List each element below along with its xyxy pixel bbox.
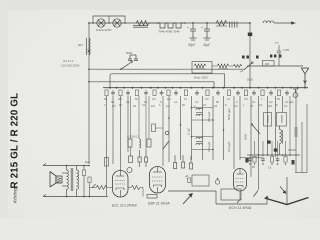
- component row mid bottom: [174, 155, 193, 169]
- svg-text:5000 µµF: 5000 µµF: [227, 108, 231, 120]
- bus junction dots: [109, 87, 306, 89]
- dipole V symbol: [265, 198, 309, 205]
- resistor R10: [131, 186, 140, 190]
- wire to choke: [149, 22, 158, 24]
- svg-text:0,3: 0,3: [234, 104, 238, 108]
- frame box AF coupling: [192, 175, 209, 186]
- main distribution bus: [103, 87, 308, 89]
- svg-text:0,1: 0,1: [284, 104, 288, 108]
- svg-text:0,1µF: 0,1µF: [187, 128, 191, 135]
- capacitor C14 FT 1725: [277, 45, 281, 66]
- diode D1 arrow: [280, 187, 286, 194]
- coil former box 2: [277, 113, 287, 127]
- wire output arrow: [274, 22, 295, 24]
- switch S4: [251, 124, 260, 134]
- svg-text:0,5: 0,5: [112, 104, 116, 108]
- coil marks inside formers: [268, 115, 283, 123]
- node dots electrode row: [250, 154, 291, 156]
- svg-text:6µF: 6µF: [85, 160, 90, 164]
- speaker LS: [50, 172, 62, 188]
- capacitor C7: [274, 149, 278, 152]
- resistor R5: [233, 65, 242, 68]
- capacitor C4 block: [248, 33, 252, 37]
- node filter cap 2: [206, 22, 208, 24]
- svg-text:0,1: 0,1: [214, 104, 218, 108]
- svg-text:0,3: 0,3: [205, 97, 209, 101]
- lamp La1: [97, 19, 105, 27]
- wire lamp middle tap: [108, 16, 110, 23]
- node B+ branch: [249, 22, 251, 24]
- node lamp taps: [88, 22, 126, 24]
- capacitor C2 electrolytic: [190, 23, 197, 40]
- svg-text:32µF: 32µF: [188, 43, 195, 47]
- svg-text:5000: 5000: [126, 51, 133, 55]
- svg-text:+: +: [187, 26, 189, 30]
- tube V3: [234, 169, 247, 192]
- wire lamp bypass loop: [93, 16, 125, 23]
- switch S3 wave band: [163, 131, 169, 149]
- wire branch down: [249, 23, 251, 88]
- svg-text:0,2: 0,2: [166, 104, 170, 108]
- svg-text:0,5: 0,5: [244, 97, 248, 101]
- svg-text:0,1: 0,1: [268, 166, 272, 170]
- label bus extra values: [104, 103, 288, 108]
- hanging resistor bank under bus: [105, 90, 289, 96]
- svg-text:F.T: F.T: [275, 41, 279, 45]
- small circle node: [127, 167, 132, 172]
- resistor R1: [136, 21, 149, 26]
- svg-text:µF: µF: [185, 174, 189, 178]
- labels under bank: [104, 97, 289, 104]
- svg-text:0,5: 0,5: [152, 97, 156, 101]
- wire tube V3 cathode lead: [239, 191, 241, 200]
- wire bottom right with arrow: [216, 197, 267, 204]
- node mains junctions: [88, 68, 90, 82]
- headphone jack J1: [293, 89, 298, 97]
- wire AVC line right: [247, 65, 303, 67]
- lamp La2: [113, 19, 121, 27]
- svg-text:0,3 50 0,1: 0,3 50 0,1: [127, 135, 140, 139]
- svg-text:7946 4096 7946: 7946 4096 7946: [158, 30, 180, 34]
- svg-text:2M: 2M: [118, 97, 122, 101]
- capacitor C6: [267, 141, 271, 144]
- wire speaker top line: [43, 166, 89, 197]
- IF transformer T2 coils: [192, 137, 214, 150]
- wire mixer electrode row: [247, 154, 300, 156]
- capacitor C1 series block: [133, 26, 148, 28]
- wire heater line 3: [89, 82, 214, 88]
- svg-text:1µF: 1µF: [289, 100, 294, 104]
- IF transformer T1 coils: [192, 108, 214, 121]
- svg-text:ECL 113 2R3W: ECL 113 2R3W: [112, 204, 137, 208]
- svg-text:Körting: Körting: [13, 187, 19, 203]
- capacitor C5: [128, 55, 138, 61]
- transformer T3 output: [62, 168, 79, 191]
- capacitor C12 blob: [292, 160, 295, 165]
- wire right mid horiz: [240, 157, 262, 159]
- svg-text:0,1: 0,1: [227, 97, 231, 101]
- svg-text:0,2: 0,2: [269, 100, 273, 104]
- node dots under electrode caps: [249, 163, 286, 164]
- svg-text:220 µµF: 220 µµF: [207, 111, 211, 122]
- capacitor row under electrode line: [248, 157, 287, 163]
- svg-text:EBF 11 5H3A: EBF 11 5H3A: [148, 202, 170, 206]
- trimmer row: [242, 55, 281, 59]
- wire heater line 2: [110, 74, 225, 88]
- svg-text:+: +: [201, 26, 203, 30]
- capacitor C8: [82, 170, 85, 176]
- coil L2: [263, 21, 274, 23]
- wire right mid horiz 2: [288, 149, 296, 151]
- svg-text:0,1: 0,1: [174, 100, 178, 104]
- component row above V2: [129, 150, 148, 167]
- svg-text:0,1: 0,1: [195, 100, 199, 104]
- resistor R8: [88, 177, 91, 183]
- svg-text:404: 404: [78, 43, 83, 47]
- switch arrow tuning: [183, 194, 192, 204]
- wire heater line 1: [89, 68, 244, 70]
- long drop wires: [107, 90, 297, 196]
- switch S2: [244, 62, 253, 70]
- capacitor C10: [188, 178, 191, 182]
- svg-text:0,1: 0,1: [259, 103, 263, 107]
- svg-text:1M: 1M: [151, 104, 155, 108]
- capacitor C11 blob: [245, 158, 248, 163]
- wire cluster drops: [131, 96, 150, 156]
- frame box around cathode: [221, 189, 241, 200]
- switch S6: [254, 191, 259, 197]
- title Körting R215GL/R220GL (vertical): [10, 93, 21, 203]
- switch S5: [92, 184, 96, 188]
- node filter cap 1: [192, 22, 194, 24]
- potentiometer P2: [215, 180, 219, 184]
- resistor R7 hatched: [294, 128, 297, 136]
- wire speaker bottom line: [43, 196, 108, 198]
- svg-text:110 125 220V: 110 125 220V: [61, 64, 79, 68]
- wire left feed vertical: [88, 23, 90, 164]
- tube V2: [150, 167, 166, 194]
- svg-text:Regl. 5020: Regl. 5020: [194, 76, 208, 80]
- antenna A1: [301, 68, 308, 88]
- coil L4 oscillator: [280, 126, 283, 155]
- svg-text:Ch 17-1: Ch 17-1: [63, 59, 74, 63]
- capacitor C3 electrolytic: [204, 23, 211, 40]
- svg-text:1725: 1725: [283, 48, 289, 52]
- svg-text:100: 100: [265, 62, 270, 66]
- svg-text:220 µµF: 220 µµF: [207, 141, 211, 152]
- tube V1 output ECL: [113, 171, 129, 198]
- svg-text:2000: 2000: [244, 133, 248, 140]
- svg-text:100 µµF: 100 µµF: [227, 141, 231, 152]
- wire right edge verticals: [295, 104, 307, 173]
- wire main B+ line: [89, 22, 250, 24]
- wire V antenna lead: [286, 177, 288, 204]
- node speaker line ends: [43, 164, 46, 197]
- grid cluster components: [128, 139, 151, 148]
- capacitor C9 under V2: [147, 195, 157, 199]
- svg-text:32µF: 32µF: [203, 43, 210, 47]
- wire heater links: [212, 65, 217, 67]
- choke L1 (square teeth): [158, 23, 185, 28]
- potentiometer P1 hatched block: [230, 22, 238, 28]
- coil L3 mains dropper (vertical): [86, 38, 90, 55]
- svg-text:5000: 5000: [247, 78, 253, 82]
- svg-text:0,1: 0,1: [252, 100, 256, 104]
- node x mark on mains wire: [88, 50, 91, 53]
- svg-text:µ4: µ4: [240, 69, 244, 73]
- svg-text:R 215 GL / R 220 GL: R 215 GL / R 220 GL: [10, 93, 21, 189]
- wire short drops to electrode row: [255, 96, 291, 155]
- coil former box 1: [264, 113, 272, 127]
- node junctions speaker: [66, 165, 91, 198]
- svg-text:0,22A 220V: 0,22A 220V: [96, 28, 112, 32]
- resistor R2: [216, 21, 227, 26]
- switch S1 mains selector: [121, 61, 133, 69]
- svg-text:0,1: 0,1: [142, 103, 146, 107]
- resistor R11 on feed: [105, 158, 109, 167]
- node dots mid verticals: [168, 107, 224, 151]
- resistor R3 in frame: [192, 62, 212, 74]
- resistor R9 cathode: [96, 186, 107, 190]
- wire cathode stubs: [90, 188, 144, 197]
- svg-text:ECH 11 5H3A: ECH 11 5H3A: [229, 206, 252, 210]
- resistor R6 box: [263, 61, 275, 67]
- resistor R4: [217, 64, 229, 69]
- svg-text:2M: 2M: [268, 104, 272, 108]
- capacitor C13: [152, 124, 156, 132]
- wire mid bottom horizontal: [168, 191, 216, 204]
